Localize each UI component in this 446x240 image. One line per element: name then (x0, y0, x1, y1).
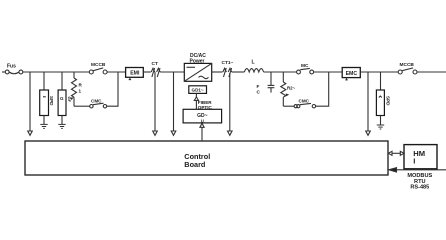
gate driver GD1~ (189, 86, 207, 94)
svg-text:R2~: R2~ (287, 86, 296, 91)
wire EMC to MCCB2 (360, 71, 398, 73)
wire control board to GD with up arrow (200, 123, 204, 141)
arrow into control board (228, 131, 233, 135)
svg-text:L: L (252, 60, 255, 66)
contactor MC (297, 68, 314, 74)
svg-text:MC: MC (301, 63, 309, 69)
HMI label (413, 149, 425, 166)
SPD2 surge protector (376, 90, 384, 116)
arrow into control board (153, 131, 158, 135)
wire GD to GD1 with up arrow (194, 93, 198, 109)
R1 label (79, 83, 83, 94)
GD~ label (197, 113, 208, 124)
svg-text:G: G (60, 96, 64, 101)
FC label (257, 84, 261, 95)
fuse Fus (5, 70, 23, 74)
resistor R1 (70, 72, 76, 106)
svg-text:Fus: Fus (7, 64, 16, 70)
wire inverter to CT1 (212, 71, 223, 73)
wire CT1 to L (232, 71, 245, 73)
wire G-box top lead (61, 72, 63, 90)
wire EMI to CT (143, 71, 151, 73)
wire SPD1 bottom lead (43, 116, 45, 125)
svg-text:MCCB: MCCB (400, 62, 415, 68)
gate drive unit GD~ (183, 109, 222, 123)
wire G-box bottom lead (61, 116, 63, 125)
svg-text:GF: GF (67, 97, 72, 103)
breaker MCCB2 (398, 68, 417, 74)
current transformer CT1~ (223, 68, 232, 77)
EMC filter box (342, 68, 360, 80)
svg-text:EMC: EMC (346, 71, 358, 77)
svg-text:EMI: EMI (130, 71, 140, 77)
wire MCCB1 to EMI (107, 71, 126, 73)
svg-text:CT: CT (152, 61, 158, 67)
svg-text:C: C (257, 90, 261, 95)
svg-text:CMC: CMC (299, 98, 310, 103)
svg-text:GD1~: GD1~ (192, 88, 204, 93)
wire SPD1 top lead (43, 72, 45, 90)
wire SPD2 bottom lead (380, 116, 382, 126)
svg-text:R: R (79, 83, 83, 88)
current transformer CT (151, 68, 160, 77)
wire CT sense drop (154, 72, 156, 131)
wire CMC2 to bus (316, 72, 329, 106)
svg-text:CT1~: CT1~ (222, 60, 234, 66)
wire R1 to CMC1 (74, 105, 90, 107)
contactor CMC1 (90, 103, 107, 108)
wire SPD2 top lead (380, 72, 382, 90)
wire R2 to CMC2 (283, 105, 294, 107)
arrow into control board (28, 131, 33, 135)
resistor R2~ (281, 72, 289, 106)
wire input stub (2, 71, 5, 73)
svg-text:RS-485: RS-485 (410, 185, 429, 191)
svg-text:Power: Power (190, 59, 205, 65)
wire board to HMI double arrow (388, 151, 404, 155)
contactor CMC2 (294, 103, 315, 108)
DC/AC Power label (190, 53, 207, 65)
svg-text:F: F (257, 84, 260, 89)
inductor L (244, 69, 263, 72)
ground under G box (58, 124, 65, 128)
FIBER OPTIC label (198, 100, 213, 110)
ground under SPD1 (40, 124, 47, 128)
breaker MCCB1 (89, 68, 107, 74)
svg-text:SPD: SPD (386, 96, 391, 106)
EMI filter box (126, 68, 144, 80)
wire voltage sense drop (173, 72, 175, 131)
wire output (417, 71, 446, 73)
svg-text:CMC: CMC (91, 98, 102, 103)
arrow into control board (171, 131, 176, 135)
inverter U1 DC/AC Power (184, 63, 211, 81)
wire L to MC (264, 71, 297, 73)
capacitor FC (268, 72, 275, 93)
Control Board label (184, 152, 210, 169)
wire sense drop to control board (29, 72, 31, 131)
G monitor box (58, 90, 66, 116)
wire MODBUS link (389, 168, 446, 172)
MODBUS RTU RS-485 label (407, 173, 432, 191)
svg-text:Board: Board (184, 160, 205, 169)
wire CT1 sense drop (229, 73, 231, 131)
HMI box (404, 145, 437, 169)
wire main bus left (23, 71, 90, 73)
control board (25, 141, 388, 175)
ground under SPD2 (377, 125, 384, 129)
wire CMC1 to bus (107, 72, 118, 106)
svg-text:MCCB: MCCB (91, 62, 106, 68)
svg-text:I: I (413, 157, 415, 166)
arrow into control board (366, 131, 371, 135)
wire CT to inverter (160, 71, 184, 73)
wire output sense drop (367, 72, 369, 131)
SPD1 surge protector (40, 90, 49, 116)
svg-text:SPD: SPD (49, 96, 54, 106)
wire MC to EMC (314, 71, 343, 73)
svg-text:1: 1 (79, 89, 82, 94)
